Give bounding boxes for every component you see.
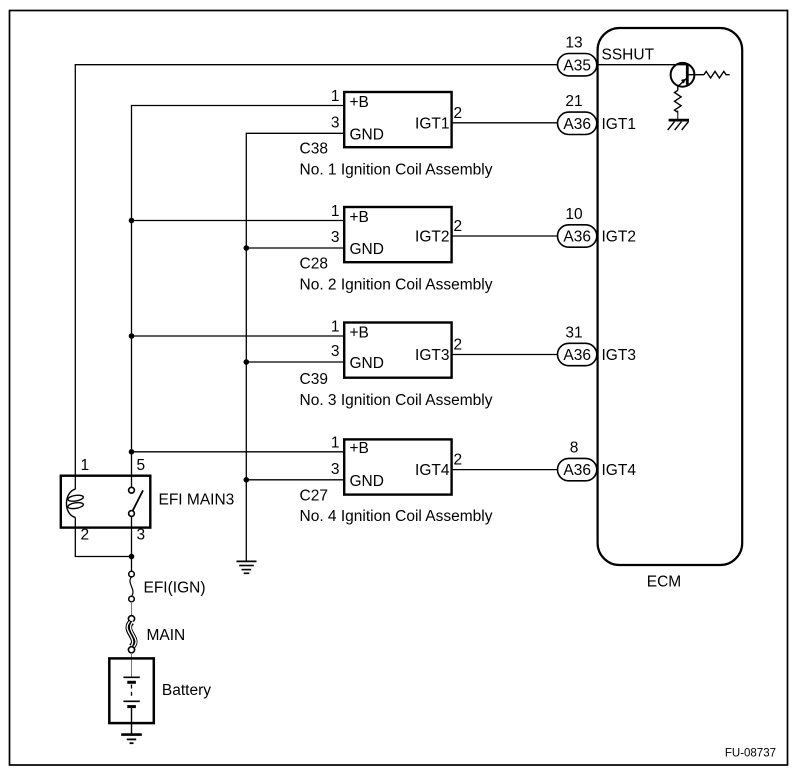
connector A36 pin 10 IGT2 [558, 225, 597, 247]
svg-text:MAIN: MAIN [147, 627, 186, 644]
svg-text:8: 8 [570, 440, 579, 457]
junction +B rail / coil 2 [129, 218, 135, 224]
svg-text:IGT2: IGT2 [602, 229, 636, 246]
resistor R2 (emitter, vertical) [675, 90, 682, 112]
svg-text:+B: +B [350, 440, 369, 457]
connector A36 pin 8 IGT4 [558, 458, 597, 480]
svg-text:C27: C27 [300, 488, 328, 505]
svg-text:GND: GND [350, 355, 384, 372]
svg-text:2: 2 [454, 337, 463, 354]
wire IGT4 coil to A36 [452, 469, 558, 471]
wire IGT1 coil to A36 [452, 122, 558, 124]
wire +B rail vertical (down to relay pin 5) [131, 106, 133, 488]
wire collector to resistor [689, 74, 704, 76]
svg-text:1: 1 [331, 435, 340, 452]
junction GND rail / coil 2 [244, 245, 250, 251]
svg-text:3: 3 [137, 527, 146, 544]
svg-text:Battery: Battery [162, 682, 211, 699]
wire +B to coil 1 [131, 105, 344, 107]
svg-text:+B: +B [350, 94, 369, 111]
svg-text:21: 21 [565, 93, 582, 110]
svg-text:3: 3 [331, 115, 340, 132]
junction GND rail / coil 4 [244, 477, 250, 483]
svg-text:1: 1 [331, 203, 340, 220]
wire IGT2 coil to A36 [452, 235, 558, 237]
relay EFI MAIN3 [61, 476, 151, 528]
wire fusible link to battery [131, 653, 133, 677]
connector A36 pin 21 IGT1 [558, 112, 597, 134]
svg-text:3: 3 [331, 229, 340, 246]
junction pin2/pin3 node [129, 554, 135, 560]
wire GND coil 2 [246, 247, 344, 249]
connector A35 pin 13 SSHUT [558, 54, 597, 76]
svg-text:13: 13 [565, 34, 582, 51]
junction +B rail / coil 4 [129, 449, 135, 455]
wire GND coil 3 [246, 361, 344, 363]
wire GND coil 4 [246, 479, 344, 481]
ignition coil C38 (No.1) [344, 92, 451, 147]
svg-text:10: 10 [565, 206, 583, 223]
wire SSHUT inside ECM to transistor base [598, 64, 688, 66]
junction +B rail / coil 3 [129, 333, 135, 339]
fuse EFI(IGN) [129, 571, 135, 602]
svg-text:IGT4: IGT4 [602, 462, 637, 479]
ignition coil C28 (No.2) [344, 207, 451, 262]
svg-text:+B: +B [350, 324, 369, 341]
battery [109, 658, 154, 734]
wire +B to coil 3 [132, 335, 345, 337]
wire +B to coil 2 [132, 220, 345, 222]
svg-text:2: 2 [454, 452, 463, 469]
transistor Q1 (SSHUT driver inside ECM) [671, 63, 695, 90]
svg-text:IGT2: IGT2 [415, 229, 449, 246]
svg-text:1: 1 [81, 457, 90, 474]
svg-text:C39: C39 [300, 371, 328, 388]
svg-text:No. 2 Ignition Coil Assembly: No. 2 Ignition Coil Assembly [300, 276, 493, 293]
svg-text:C38: C38 [300, 141, 328, 158]
svg-text:A36: A36 [563, 347, 591, 364]
wire +B to coil 4 [132, 451, 345, 453]
svg-text:EFI MAIN3: EFI MAIN3 [159, 492, 235, 509]
ignition coil C39 (No.3) [344, 323, 451, 378]
wire GND rail vertical [245, 133, 247, 561]
ground (battery) [121, 735, 142, 744]
svg-text:A36: A36 [563, 229, 591, 246]
svg-text:No. 3 Ignition Coil Assembly: No. 3 Ignition Coil Assembly [300, 392, 493, 409]
svg-text:IGT4: IGT4 [415, 462, 450, 479]
ground (GND rail) [237, 561, 257, 573]
svg-text:A35: A35 [563, 57, 591, 74]
svg-text:FU-08737: FU-08737 [725, 747, 776, 759]
wire relay pin 3 down to fuse [131, 516, 133, 571]
fusible link MAIN [127, 616, 136, 653]
junction GND rail / coil 3 [244, 359, 250, 365]
svg-text:GND: GND [350, 241, 384, 258]
ground (ECM internal, hatched) [668, 120, 689, 130]
wire GND coil 1 [246, 132, 345, 134]
svg-text:IGT1: IGT1 [602, 116, 636, 133]
connector A36 pin 31 IGT3 [558, 343, 597, 365]
svg-text:C28: C28 [300, 256, 328, 273]
svg-text:+B: +B [350, 209, 369, 226]
svg-text:IGT1: IGT1 [415, 115, 449, 132]
wire SSHUT left rail vertical (down to relay pin 1) [74, 64, 76, 489]
svg-text:IGT3: IGT3 [415, 347, 449, 364]
svg-text:1: 1 [331, 319, 340, 336]
ignition coil C27 (No.4) [344, 439, 451, 494]
svg-text:A36: A36 [563, 116, 591, 133]
ECM U1 [598, 28, 743, 591]
svg-text:EFI(IGN): EFI(IGN) [144, 580, 206, 597]
svg-text:SSHUT: SSHUT [602, 47, 655, 64]
svg-text:3: 3 [331, 461, 340, 478]
wire fuse to fusible link [131, 602, 133, 616]
wire IGT3 coil to A36 [452, 354, 558, 356]
svg-text:No. 1 Ignition Coil Assembly: No. 1 Ignition Coil Assembly [300, 161, 493, 178]
svg-text:1: 1 [331, 88, 340, 105]
svg-text:31: 31 [565, 324, 582, 341]
svg-text:2: 2 [81, 527, 90, 544]
wire relay pin 2 down and right [75, 528, 131, 557]
svg-text:3: 3 [331, 343, 340, 360]
svg-text:IGT3: IGT3 [602, 347, 636, 364]
resistor R1 (collector, horizontal) [704, 71, 730, 78]
svg-text:A36: A36 [563, 462, 591, 479]
svg-text:2: 2 [454, 218, 463, 235]
svg-text:ECM: ECM [647, 574, 681, 591]
svg-text:2: 2 [454, 105, 463, 122]
svg-text:GND: GND [350, 126, 384, 143]
svg-text:5: 5 [137, 457, 146, 474]
wire emitter resistor to ground [677, 115, 679, 119]
svg-text:No. 4 Ignition Coil Assembly: No. 4 Ignition Coil Assembly [300, 508, 493, 525]
wire SSHUT horizontal (A35 to left rail) [75, 64, 557, 66]
svg-text:GND: GND [350, 473, 384, 490]
